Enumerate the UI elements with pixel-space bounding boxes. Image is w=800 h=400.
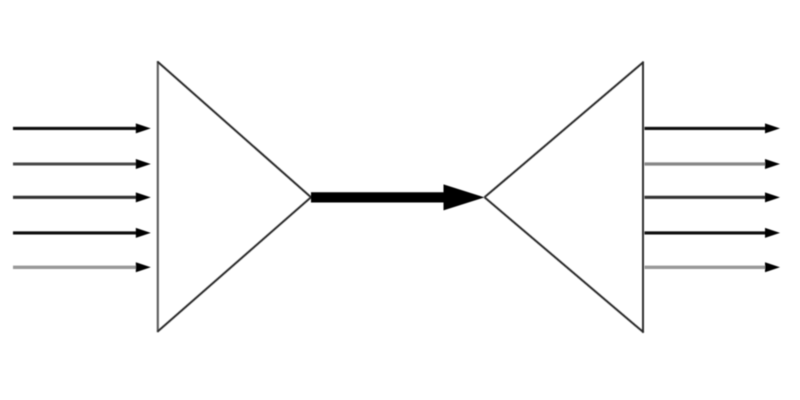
mux triangle (left) lower diagonal edge: [158, 197, 312, 331]
output arrow 2: [645, 159, 781, 169]
mux triangle (left) upper diagonal edge: [158, 62, 312, 198]
output arrow 4: [645, 228, 781, 238]
demux triangle (right) base edge: [642, 61, 644, 333]
input arrow 5: [13, 262, 151, 272]
mux triangle (left) base edge: [157, 61, 159, 332]
trunk arrow (thick, center): [311, 184, 485, 210]
demux triangle (right) lower diagonal edge: [485, 197, 644, 332]
demux triangle (right) upper diagonal edge: [485, 62, 644, 197]
output arrow 5: [645, 262, 781, 272]
output arrow 3: [645, 192, 781, 202]
output arrow 1: [645, 123, 781, 133]
input arrow 1: [13, 123, 151, 133]
input arrow 2: [13, 159, 151, 169]
input arrow 3: [13, 192, 151, 202]
input arrow 4: [13, 228, 151, 238]
